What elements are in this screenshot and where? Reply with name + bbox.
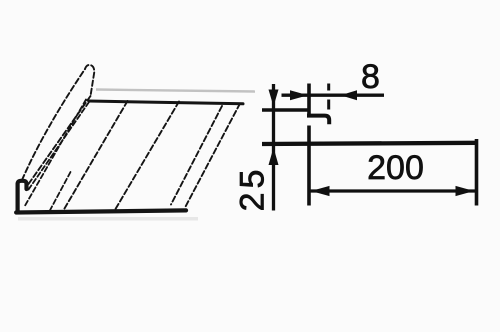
dotted extension above lip — [327, 84, 330, 110]
scan smudge under panel — [18, 217, 198, 221]
arrow dim8 left-pointing — [341, 90, 358, 100]
dim 200 line — [309, 189, 475, 192]
hook top and lip — [307, 116, 329, 125]
arrow dim200 right — [456, 186, 475, 196]
panel right edge — [185, 104, 241, 209]
seam lip bottom line B2 — [28, 102, 90, 191]
panel hatch line d2 — [116, 102, 180, 210]
arrow dim8 right-pointing — [290, 90, 308, 100]
seam hook C (front cross-section) — [18, 181, 27, 211]
arrow dim25 up — [269, 148, 279, 166]
svg-text:8: 8 — [361, 58, 380, 96]
profile web upper / extension for dim 8 — [307, 84, 311, 118]
panel bottom front edge — [16, 210, 186, 212]
fold line web-to-pan C — [25, 100, 87, 207]
top extension line of dim 25 — [262, 108, 308, 112]
seam cap fold — [85, 65, 94, 96]
seam outer line A — [22, 69, 85, 180]
right extension line of dim 200 — [475, 139, 479, 206]
profile web lower / extension for dim 200 — [307, 126, 311, 206]
svg-text:25: 25 — [234, 166, 272, 212]
panel top back edge — [89, 101, 243, 104]
panel hatch line d1 — [65, 101, 128, 209]
pan bottom line (200 mm) — [262, 143, 478, 144]
dim 25 vertical line — [272, 84, 275, 211]
arrow dim200 left — [311, 186, 330, 196]
svg-text:200: 200 — [367, 149, 424, 187]
seam inner line B — [29, 96, 91, 184]
scan ghost line above top edge — [96, 90, 255, 92]
panel hatch line d3 — [171, 106, 222, 205]
short lower hatch line g — [49, 172, 71, 213]
arrow dim25 down — [269, 90, 279, 107]
dim 8 line — [282, 94, 385, 97]
